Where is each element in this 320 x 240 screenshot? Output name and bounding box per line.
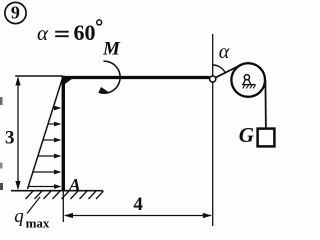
ground line: [11, 190, 103, 192]
svg-text:9: 9: [11, 3, 20, 23]
pulley circle: [231, 63, 265, 97]
problem number badge 9: [5, 2, 26, 23]
vertical column beam: [62, 76, 65, 191]
load arrow 1: [53, 106, 61, 111]
svg-text:G: G: [239, 123, 254, 147]
rope from pin to pulley: [214, 65, 241, 79]
right vertical extension line through pin: [212, 34, 214, 226]
svg-text:q: q: [14, 206, 24, 227]
load arrow 6 (bottom, along base): [28, 184, 61, 189]
svg-text:max: max: [26, 216, 50, 231]
pulley axle pin support: [242, 75, 256, 89]
weight box: [258, 129, 275, 147]
extension line below column: [62, 191, 64, 222]
svg-text:α: α: [37, 21, 49, 45]
load arrow 4: [38, 154, 62, 159]
svg-text:4: 4: [133, 194, 143, 215]
svg-text:60: 60: [74, 20, 96, 45]
moment arc with arrowhead: [98, 61, 120, 93]
load arrow 2: [48, 122, 61, 127]
load arrow 5: [33, 170, 62, 175]
svg-text:α: α: [219, 41, 230, 63]
corner fillet: [62, 76, 76, 84]
dimension extension line (top left): [15, 75, 63, 77]
load arrow 3: [43, 138, 61, 143]
q_max label: [14, 206, 50, 231]
pin at beam end: [210, 76, 216, 82]
ground hatching: [26, 191, 104, 199]
rope hanging down from pulley: [264, 80, 267, 129]
dimension 4 line: [64, 213, 212, 218]
scan artifact marks on left edge: [0, 97, 3, 105]
q_max leader line: [27, 197, 40, 214]
dimension 3 line: [15, 76, 20, 190]
svg-text:3: 3: [5, 128, 15, 149]
svg-text:M: M: [102, 39, 121, 60]
label alpha = 60 deg: [37, 20, 102, 45]
angle alpha arc at pin: [213, 65, 226, 73]
distributed load hypotenuse: [28, 77, 64, 190]
top beam (horizontal): [62, 76, 210, 79]
svg-text:A: A: [68, 175, 81, 195]
